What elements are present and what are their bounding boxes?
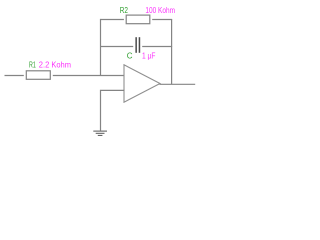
svg-text:1 µF: 1 µF [142, 51, 155, 60]
wire output [160, 83, 196, 85]
resistor R2 [126, 15, 150, 24]
ground [93, 131, 107, 135]
wire R1 to inverting input [53, 75, 125, 77]
wire capacitor right [142, 46, 172, 48]
svg-text:R1: R1 [29, 61, 36, 70]
wire capacitor left [101, 46, 134, 48]
resistor R1 [26, 71, 50, 80]
wire input left [5, 75, 24, 77]
capacitor C plate 2 [139, 37, 141, 53]
wire feedback right vertical [171, 19, 173, 84]
svg-text:R2: R2 [120, 6, 129, 15]
wire R2 right [152, 19, 172, 21]
wire R2 left [101, 19, 124, 21]
capacitor C plate 1 [135, 37, 137, 53]
wire feedback left vertical [100, 19, 102, 76]
wire non-inverting input [101, 90, 125, 130]
svg-text:100 Kohm: 100 Kohm [145, 6, 175, 15]
op-amp U1 [124, 65, 160, 102]
svg-text:2.2 Kohm: 2.2 Kohm [39, 61, 72, 70]
svg-text:C: C [127, 51, 133, 60]
